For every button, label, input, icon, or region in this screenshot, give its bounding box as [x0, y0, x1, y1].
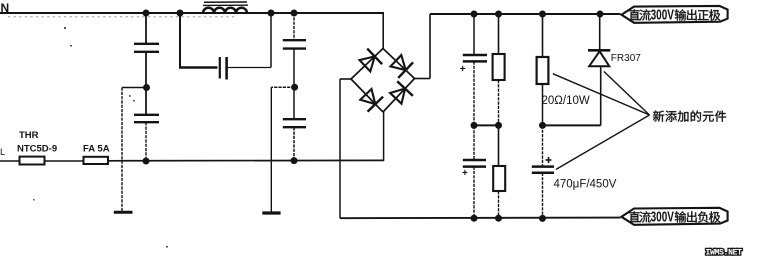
diode D4 (bridge bottom-right) — [397, 81, 413, 96]
wire DC positive rail — [430, 13, 621, 15]
wire L main run — [108, 159, 384, 161]
resistor R2 (bleeder) — [493, 166, 505, 191]
capacitor C2 — [134, 114, 159, 116]
thermistor THR NTC5D-9 — [20, 157, 45, 165]
scan texture ghost line — [8, 16, 235, 18]
wire C5 bottom lead — [293, 127, 295, 160]
label text 直流 — [629, 9, 651, 20]
wire bridge right arm — [415, 78, 431, 80]
node junction R midpoint — [495, 122, 502, 129]
C8 polarity plus — [546, 159, 552, 161]
node junction DC- R2 — [495, 215, 502, 222]
node Y1 midpoint — [143, 84, 150, 91]
wire X-cap row left — [179, 66, 218, 68]
node junction DC- C7 — [471, 215, 478, 222]
scan speckles (noise) — [33, 27, 168, 248]
annotation pointer lines — [553, 74, 650, 115]
wire R2 bottom lead — [498, 191, 500, 218]
diode D5 FR307 — [588, 49, 610, 52]
wire earth stub left — [122, 87, 147, 89]
node junction caps midpoint — [471, 122, 478, 129]
wire C8 top lead — [542, 125, 544, 166]
diode D2 (bridge top-right) — [398, 62, 413, 78]
wire earth drop left — [121, 88, 123, 212]
node junction L-C2 — [143, 158, 150, 165]
svg-text:L: L — [0, 147, 5, 158]
wire N top rail — [0, 12, 384, 14]
wire C4-C5 link — [293, 49, 295, 119]
wire R3 top lead — [542, 14, 544, 57]
svg-text:NTC5D-9: NTC5D-9 — [17, 144, 57, 155]
wire C1 top lead — [145, 13, 147, 44]
label text 输出正极 — [675, 9, 720, 20]
capacitor C7 (electrolytic) — [463, 159, 486, 162]
wire R3 bottom lead — [542, 84, 544, 125]
node junction top J1 — [143, 10, 150, 17]
fuse FA 5A — [84, 157, 109, 164]
svg-text:IWMS.NET: IWMS.NET — [706, 249, 743, 258]
label DC 300V output negative — [622, 208, 728, 225]
diode D3 (bridge bottom-left) — [368, 97, 384, 112]
svg-text:300V: 300V — [651, 207, 675, 225]
label text 直流(neg) — [629, 211, 651, 222]
capacitor C6 (electrolytic) — [463, 54, 487, 57]
wire X-cap left leg — [179, 13, 181, 68]
wire X-cap right leg — [270, 13, 272, 68]
inductor L1 filter choke — [203, 8, 247, 13]
capacitor C1 — [134, 43, 159, 45]
capacitor C8 470uF/450V — [532, 165, 554, 168]
svg-text:470μF/450V: 470μF/450V — [554, 179, 617, 191]
wire X-cap row right — [228, 67, 271, 69]
wire C4 top lead — [293, 13, 295, 40]
node junction top J3 — [268, 10, 275, 17]
svg-text:FA 5A: FA 5A — [83, 144, 110, 155]
svg-text:THR: THR — [19, 130, 39, 141]
wire DC negative rail — [340, 217, 621, 220]
wire C6 top lead — [473, 14, 475, 55]
capacitor C4 — [283, 39, 306, 41]
node junction R3/D5/C8 — [539, 122, 546, 129]
ground GND2 — [262, 211, 280, 214]
annotation text 新添加的元件 — [653, 111, 726, 122]
wire D5 cathode lead — [599, 14, 601, 50]
node junction DC+ D5 — [597, 11, 604, 18]
wire caps midpoint link — [474, 124, 499, 126]
wire earth drop right — [270, 87, 272, 211]
node junction DC- C8 — [539, 215, 546, 222]
wire earth stub right — [271, 86, 294, 88]
wire R1 bottom lead — [498, 80, 500, 125]
wire C1-C2 link — [145, 52, 147, 115]
wire bridge left drop to negative rail — [339, 79, 341, 218]
resistor R3 20ohm/10W — [537, 57, 549, 84]
bridge rectifier diamond wires — [351, 49, 383, 80]
node junction DC+ R1 — [495, 11, 502, 18]
wire C2 bottom lead — [145, 122, 147, 161]
capacitor C3 (X cap) — [219, 57, 221, 79]
wire riser to bridge top — [382, 13, 384, 49]
svg-text:300V: 300V — [651, 5, 675, 23]
node junction top J4 — [291, 10, 298, 17]
capacitor C5 — [283, 118, 306, 120]
wire C7 bottom lead — [473, 167, 475, 219]
node Y2 midpoint — [291, 84, 298, 91]
label DC 300V output positive — [622, 6, 728, 23]
wire THR-fuse — [45, 160, 84, 162]
node junction DC+ R3 — [539, 11, 546, 18]
wire L lead-in — [0, 160, 20, 162]
svg-text:+: + — [462, 168, 468, 179]
wire bridge right riser to positive rail — [429, 14, 431, 79]
label text 输出负极 — [675, 211, 720, 222]
wire R1 top lead — [498, 14, 500, 54]
diode D1 (bridge top-left) — [367, 49, 382, 65]
node junction L-C5 — [291, 157, 298, 164]
wire node to diode anode — [543, 124, 601, 126]
wire R2 top lead — [498, 125, 500, 166]
ground GND1 — [114, 211, 133, 214]
wire C8 bottom lead — [542, 173, 544, 219]
svg-text:+: + — [460, 64, 466, 75]
svg-text:FR307: FR307 — [611, 53, 641, 64]
wire bridge left arm — [340, 78, 351, 80]
wire C6-C7 link — [473, 61, 475, 159]
svg-text:20Ω/10W: 20Ω/10W — [542, 95, 590, 107]
node junction DC+ C6 — [471, 11, 478, 18]
node junction top J2 — [177, 10, 184, 17]
resistor R1 (bleeder) — [493, 54, 505, 80]
wire riser to bridge bottom — [383, 112, 385, 160]
